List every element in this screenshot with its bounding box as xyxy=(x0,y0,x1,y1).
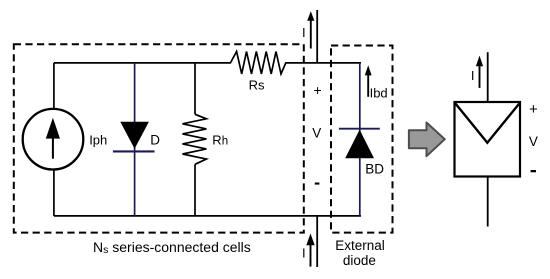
arrow: bottom terminal current I xyxy=(310,244,312,267)
resistor Rh zigzag xyxy=(183,114,207,164)
diode BD cathode bar (navy) xyxy=(339,128,380,130)
svg-text:I: I xyxy=(302,25,306,40)
wire: module top terminal xyxy=(487,52,489,102)
svg-text:V: V xyxy=(529,134,538,149)
arrow: Ibd current xyxy=(367,74,369,97)
dashed box: External diode xyxy=(331,46,393,233)
PV module chevron xyxy=(455,103,520,143)
label - (middle terminal) xyxy=(315,183,320,185)
svg-text:V: V xyxy=(312,126,321,141)
dashed box: Ns series-connected cells xyxy=(14,44,304,232)
svg-text:I: I xyxy=(302,246,306,261)
wire: BD branch vertical (navy) xyxy=(359,63,361,216)
arrow: module current I xyxy=(479,64,481,88)
wire: module bottom terminal xyxy=(487,177,489,227)
PV module symbol box xyxy=(455,102,521,177)
svg-text:Iph: Iph xyxy=(89,133,107,148)
wire: diode D branch (navy) xyxy=(134,63,136,216)
arrow: top terminal current I xyxy=(310,20,312,49)
wire: current source branch lower xyxy=(53,170,55,216)
svg-text:BD: BD xyxy=(365,162,384,177)
svg-text:Ibd: Ibd xyxy=(370,86,388,101)
diode BD triangle xyxy=(345,130,374,159)
svg-text:D: D xyxy=(150,133,160,148)
svg-text:Rs: Rs xyxy=(249,77,265,92)
label - (module) xyxy=(531,170,536,172)
wire: resistor Rh branch lower xyxy=(194,164,196,216)
current source Iph arrow xyxy=(52,136,54,159)
wire: bottom rail xyxy=(54,215,361,217)
current source Iph circle xyxy=(23,109,84,170)
svg-text:I: I xyxy=(471,68,475,83)
svg-text:diode: diode xyxy=(343,253,376,268)
wire: bottom terminal xyxy=(316,216,318,267)
wire: current source branch upper xyxy=(53,63,55,109)
svg-text:Ns series-connected cells: Ns series-connected cells xyxy=(93,239,251,256)
svg-text:External: External xyxy=(335,238,385,253)
wire: top rail left segment + resistor Rs zigzag + top rail right segment xyxy=(54,52,361,74)
gray block arrow xyxy=(409,123,445,157)
svg-text:Rh: Rh xyxy=(212,132,228,147)
svg-text:+: + xyxy=(529,101,538,118)
wire: resistor Rh branch upper xyxy=(194,63,196,114)
wire: top terminal xyxy=(316,10,318,63)
diode D triangle xyxy=(120,122,149,149)
svg-text:+: + xyxy=(314,82,322,98)
diode D cathode bar (navy) xyxy=(113,150,155,152)
